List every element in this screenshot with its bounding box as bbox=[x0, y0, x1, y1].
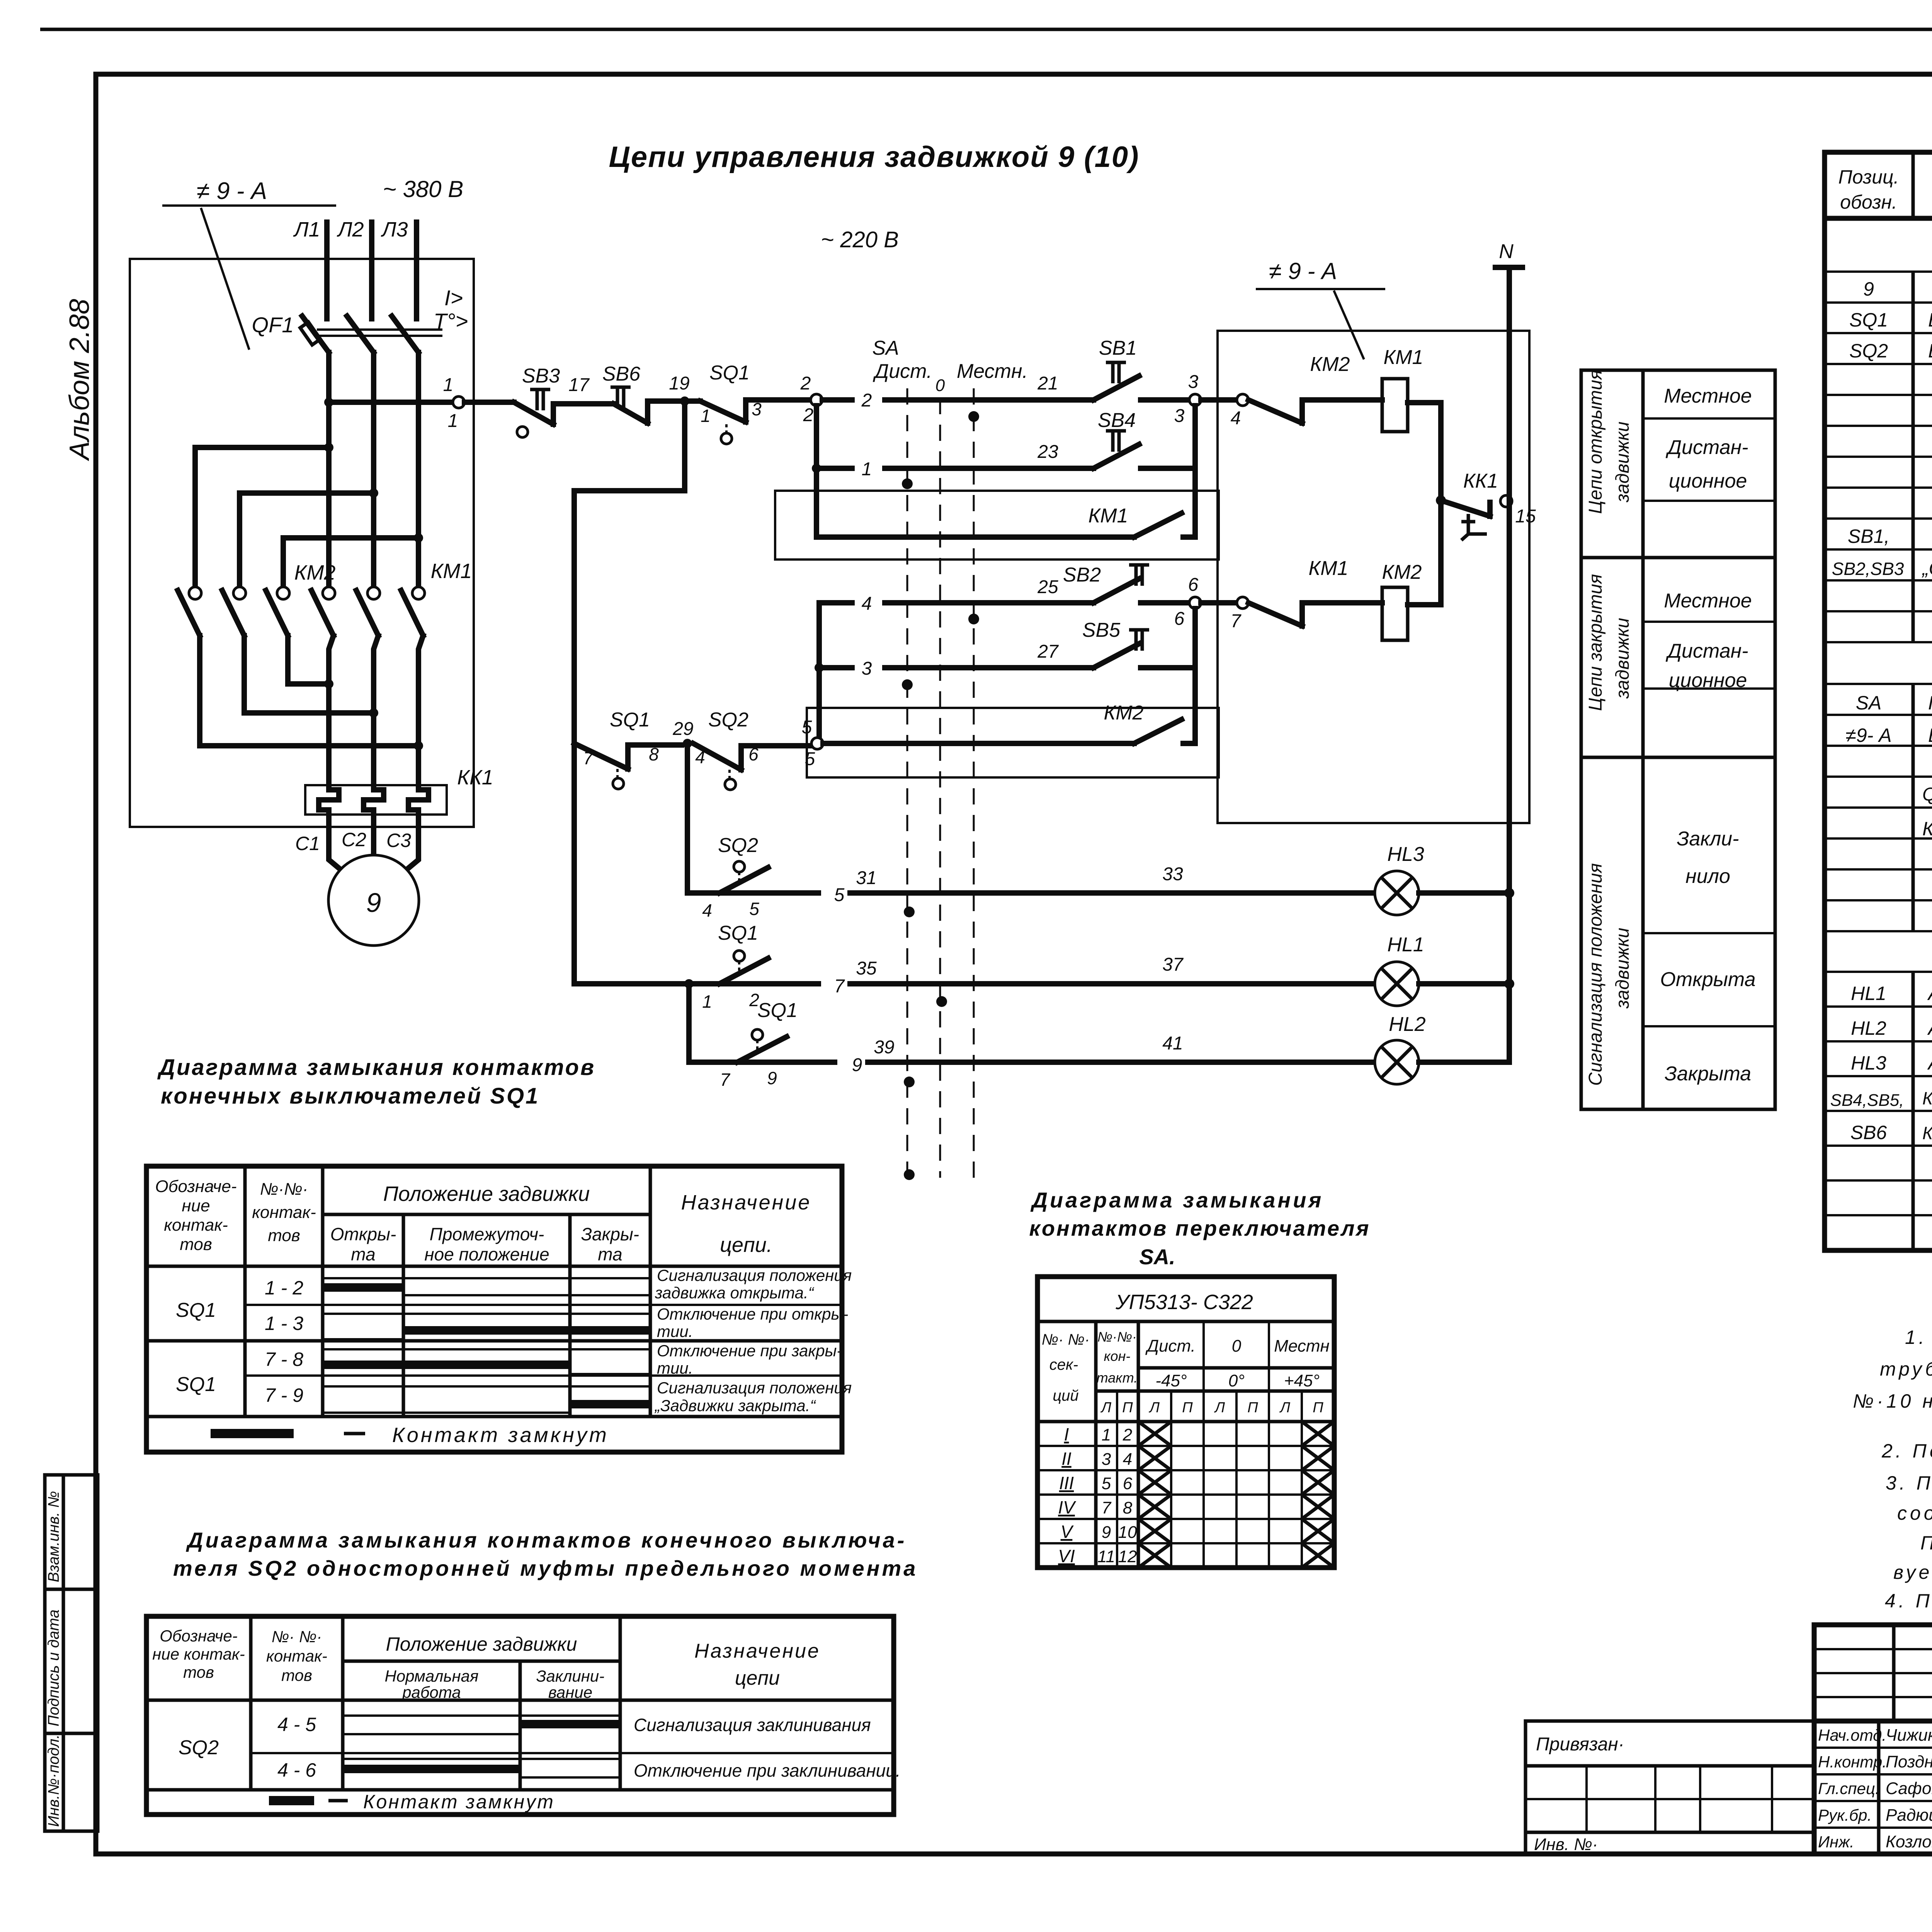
svg-text:VI: VI bbox=[1058, 1546, 1075, 1566]
attachment box bbox=[1526, 1721, 1814, 1854]
wire 31 row to lamp HL3 bbox=[775, 890, 1375, 896]
svg-text:HL2: HL2 bbox=[1389, 1013, 1425, 1036]
svg-text:37: 37 bbox=[1162, 954, 1184, 975]
wire KM2 pole b output crossover to phase 2 bbox=[244, 636, 374, 713]
svg-text:SB5: SB5 bbox=[1082, 619, 1121, 641]
svg-text:SA: SA bbox=[1856, 692, 1882, 714]
svg-text:35: 35 bbox=[856, 958, 877, 979]
side annotation table bbox=[1581, 370, 1775, 1109]
wire feeder to KM2 pole b bbox=[240, 493, 374, 588]
svg-text:HL1: HL1 bbox=[1387, 934, 1424, 956]
svg-text:КК1: КК1 bbox=[457, 766, 493, 789]
svg-text:9: 9 bbox=[1102, 1523, 1111, 1542]
svg-text:10: 10 bbox=[1118, 1523, 1137, 1542]
svg-text:N: N bbox=[1499, 240, 1514, 263]
svg-text:25: 25 bbox=[1037, 577, 1058, 597]
svg-text:Переключатель УП5313-С322: Переключатель УП5313-С322 bbox=[1928, 692, 1932, 714]
svg-text:I: I bbox=[1064, 1424, 1069, 1444]
svg-text:0: 0 bbox=[1232, 1337, 1242, 1355]
svg-text:Л: Л bbox=[1100, 1400, 1112, 1416]
svg-text:SB6: SB6 bbox=[1850, 1122, 1887, 1143]
svg-text:7: 7 bbox=[583, 748, 594, 768]
svg-text:9: 9 bbox=[852, 1055, 862, 1075]
svg-text:П: П bbox=[1313, 1400, 1323, 1416]
svg-text:та: та bbox=[351, 1244, 375, 1264]
wire 17 bbox=[553, 401, 614, 406]
svg-text:SQ2: SQ2 bbox=[179, 1736, 219, 1759]
wire KM2 pole c output crossover to phase 1 bbox=[288, 636, 329, 684]
svg-text:Дист.: Дист. bbox=[1145, 1337, 1196, 1355]
wire collector of rows 1,3 to node 3 bbox=[1192, 406, 1198, 468]
svg-text:5: 5 bbox=[749, 899, 759, 919]
svg-text:IV: IV bbox=[1058, 1497, 1077, 1517]
svg-text:SB2: SB2 bbox=[1063, 564, 1101, 586]
svg-text:SQ2: SQ2 bbox=[718, 834, 758, 857]
wire collector of rows 3b,5 to node 6 bbox=[1192, 609, 1198, 668]
svg-text:SA.: SA. bbox=[1139, 1245, 1175, 1269]
svg-text:Сигнализация положения: Сигнализация положения bbox=[657, 1266, 852, 1284]
svg-text:9: 9 bbox=[1863, 278, 1874, 300]
svg-text:4 - 6: 4 - 6 bbox=[277, 1759, 316, 1781]
svg-text:3: 3 bbox=[1188, 372, 1199, 392]
svg-text:№· №·: №· №· bbox=[1042, 1331, 1090, 1348]
svg-text:Положение задвижки: Положение задвижки bbox=[386, 1633, 577, 1655]
svg-text:тов: тов bbox=[268, 1226, 300, 1245]
svg-text:Диаграмма замыкания контактов: Диаграмма замыкания контактов bbox=[157, 1055, 595, 1080]
svg-text:SQ1: SQ1 bbox=[709, 362, 750, 384]
svg-text:QF1- Выключатель АЕ 2026-10НУЗ: QF1- Выключатель АЕ 2026-10НУЗ-В, Iₚ 12,… bbox=[1922, 784, 1932, 805]
svg-text:V: V bbox=[1061, 1522, 1074, 1542]
svg-text:ционное: ционное bbox=[1669, 470, 1747, 492]
svg-text:теля SQ2 односторонней: теля SQ2 односторонней муфты предельного… bbox=[173, 1556, 918, 1580]
svg-text:0°: 0° bbox=[1228, 1371, 1245, 1390]
svg-text:HL3: HL3 bbox=[1387, 843, 1424, 866]
svg-text:№·10 на трубопроводе из м: №·10 на трубопроводе из метантенков схем… bbox=[1853, 1390, 1932, 1412]
svg-text:Сафонова: Сафонова bbox=[1886, 1779, 1932, 1798]
title block bbox=[1526, 1625, 1932, 1921]
svg-text:21: 21 bbox=[1037, 373, 1058, 394]
svg-text:Л: Л bbox=[1148, 1400, 1160, 1416]
svg-text:Дист.: Дист. bbox=[873, 360, 932, 383]
svg-text:Цепи открытия: Цепи открытия bbox=[1585, 370, 1606, 514]
svg-text:8: 8 bbox=[1123, 1498, 1133, 1517]
svg-text:контак-: контак- bbox=[252, 1203, 316, 1222]
svg-text:задвижки: задвижки bbox=[1612, 422, 1633, 503]
svg-text:Радюшкин: Радюшкин bbox=[1886, 1806, 1932, 1825]
svg-text:4. Под чертой указаны номе: 4. Под чертой указаны номера клемм блока… bbox=[1885, 1590, 1932, 1612]
power block boundary box bbox=[130, 259, 474, 827]
svg-text:6: 6 bbox=[1174, 609, 1185, 629]
svg-text:39: 39 bbox=[874, 1037, 894, 1058]
svg-text:SB3: SB3 bbox=[522, 365, 560, 387]
svg-text:2. Перечень элементов сост: 2. Перечень элементов составлен для одно… bbox=[1881, 1440, 1932, 1462]
svg-text:Альбом 2.88: Альбом 2.88 bbox=[64, 299, 95, 461]
svg-text:+45°: +45° bbox=[1284, 1371, 1320, 1390]
svg-text:Обозначе-: Обозначе- bbox=[160, 1627, 237, 1645]
svg-text:С2: С2 bbox=[342, 829, 366, 850]
svg-text:Л2: Л2 bbox=[337, 218, 364, 241]
svg-text:такт.: такт. bbox=[1097, 1370, 1138, 1386]
svg-text:SQ1: SQ1 bbox=[610, 709, 650, 731]
svg-text:5: 5 bbox=[1102, 1474, 1111, 1493]
svg-text:обозн.: обозн. bbox=[1840, 191, 1897, 213]
svg-text:Закры-: Закры- bbox=[581, 1224, 639, 1244]
svg-text:тов: тов bbox=[183, 1663, 214, 1681]
svg-text:Н.контр.: Н.контр. bbox=[1818, 1753, 1887, 1771]
svg-text:КМ2: КМ2 bbox=[1310, 353, 1350, 376]
svg-text:II: II bbox=[1061, 1449, 1071, 1469]
SQ1 contact diagram table bbox=[146, 1055, 852, 1452]
svg-text:КК1: КК1 bbox=[1463, 470, 1498, 492]
svg-text:3. Положение конечных вык: 3. Положение конечных выключателей SQ1 bbox=[1886, 1472, 1932, 1494]
svg-text:Л: Л bbox=[1214, 1400, 1225, 1416]
wire left signal rail bbox=[574, 401, 685, 984]
svg-text:Нач.отд.: Нач.отд. bbox=[1818, 1726, 1886, 1744]
svg-text:С3: С3 bbox=[386, 830, 411, 851]
svg-text:Арматура АС12014 У2. И ~: Арматура АС12014 У2. И ~ 220В bbox=[1927, 1052, 1932, 1074]
svg-text:Козлов: Козлов bbox=[1886, 1832, 1932, 1851]
svg-text:Инв. №·: Инв. №· bbox=[1534, 1835, 1598, 1854]
svg-text:задвижки: задвижки bbox=[1612, 928, 1633, 1009]
svg-text:1. Данная схема приведена: 1. Данная схема приведена для задвижки №… bbox=[1905, 1327, 1932, 1348]
svg-text:2: 2 bbox=[861, 390, 872, 411]
svg-text:ционное: ционное bbox=[1669, 669, 1747, 692]
svg-text:работа: работа bbox=[401, 1683, 461, 1701]
svg-text:Положение конечного выключат: Положение конечного выключателя SQ2 соот… bbox=[1920, 1532, 1932, 1554]
svg-text:Арматура АС12013У2. И ~: Арматура АС12013У2. И ~ 220В bbox=[1927, 1017, 1932, 1039]
svg-text:Подпись и дата: Подпись и дата bbox=[45, 1609, 62, 1726]
junction to KK1 contact bbox=[1436, 495, 1446, 505]
parts list table bbox=[1825, 106, 1932, 1250]
svg-text:Кнопка КЕ- 011У3, исп.2, тол: Кнопка КЕ- 011У3, исп.2, толкатель черны… bbox=[1922, 1088, 1932, 1108]
svg-text:23: 23 bbox=[1037, 442, 1058, 462]
svg-text:Положение задвижки: Положение задвижки bbox=[383, 1182, 590, 1206]
svg-text:КМ1: КМ1 bbox=[1309, 557, 1349, 580]
svg-text:4 - 5: 4 - 5 bbox=[277, 1714, 316, 1735]
svg-text:I>: I> bbox=[444, 286, 463, 310]
svg-text:SB4: SB4 bbox=[1098, 409, 1136, 432]
svg-text:тов: тов bbox=[180, 1235, 212, 1254]
svg-text:HL1: HL1 bbox=[1851, 983, 1886, 1004]
svg-text:0: 0 bbox=[935, 376, 945, 395]
svg-text:Дистан-: Дистан- bbox=[1665, 436, 1748, 459]
svg-text:9: 9 bbox=[366, 888, 381, 918]
svg-text:тов: тов bbox=[281, 1666, 312, 1684]
svg-text:III: III bbox=[1059, 1473, 1074, 1493]
svg-text:HL2: HL2 bbox=[1851, 1017, 1886, 1039]
svg-text:Закли-: Закли- bbox=[1677, 828, 1739, 850]
svg-text:4: 4 bbox=[695, 747, 705, 767]
wire down to HL2 branch bbox=[686, 984, 692, 1062]
svg-text:Открыта: Открыта bbox=[1660, 968, 1755, 991]
svg-text:конечных выключателей SQ1: конечных выключателей SQ1 bbox=[161, 1083, 539, 1109]
svg-text:SB4,SB5,: SB4,SB5, bbox=[1830, 1091, 1904, 1110]
svg-text:Сигнализация заклинивания: Сигнализация заклинивания bbox=[634, 1715, 871, 1735]
svg-text:SB1: SB1 bbox=[1099, 337, 1137, 359]
svg-text:Цепи закрытия: Цепи закрытия bbox=[1585, 574, 1606, 711]
svg-text:Закрыта: Закрыта bbox=[1665, 1063, 1751, 1085]
svg-text:Местное: Местное bbox=[1664, 385, 1752, 407]
svg-text:Взам.инв. №: Взам.инв. № bbox=[45, 1491, 62, 1582]
svg-text:4: 4 bbox=[862, 594, 872, 614]
wire feeder to KM2 pole a bbox=[195, 447, 329, 588]
junction node 29 bbox=[683, 739, 692, 748]
svg-text:Диаграмма замыкания: Диаграмма замыкания bbox=[1031, 1188, 1324, 1212]
node 5 bbox=[811, 738, 823, 749]
svg-text:нило: нило bbox=[1685, 865, 1730, 888]
svg-text:ное положение: ное положение bbox=[424, 1244, 549, 1264]
svg-text:КМ2: КМ2 bbox=[294, 561, 336, 584]
wires to motor bbox=[329, 815, 418, 877]
svg-text:Отключение при заклинивании: Отключение при заклинивании. bbox=[634, 1760, 901, 1781]
svg-text:15: 15 bbox=[1515, 506, 1536, 527]
svg-text:3: 3 bbox=[1102, 1450, 1111, 1469]
svg-text:SQ1: SQ1 bbox=[757, 999, 798, 1022]
svg-text:~ 380 В: ~ 380 В bbox=[383, 176, 464, 202]
svg-text:1: 1 bbox=[443, 375, 454, 395]
svg-text:тии.: тии. bbox=[657, 1322, 693, 1340]
svg-text:вует нормальной работе задви: вует нормальной работе задвижки bbox=[1893, 1561, 1932, 1583]
svg-text:Цепи управления задвижкой 9: Цепи управления задвижкой 9 (10) bbox=[609, 141, 1139, 173]
svg-text:6: 6 bbox=[748, 744, 759, 764]
svg-text:7: 7 bbox=[720, 1070, 730, 1090]
svg-text:Инж.: Инж. bbox=[1818, 1833, 1854, 1851]
svg-text:„Открыто“, „Закрыть“, „ Стоп: „Открыто“, „Закрыть“, „ Стоп” bbox=[1922, 558, 1932, 579]
svg-text:2: 2 bbox=[1122, 1425, 1132, 1444]
notes bbox=[1853, 1327, 1932, 1612]
svg-text:задвижки: задвижки bbox=[1612, 618, 1633, 699]
motor 9 bbox=[328, 855, 419, 946]
svg-text:цепи: цепи bbox=[735, 1667, 780, 1689]
svg-text:31: 31 bbox=[856, 868, 876, 888]
svg-text:6: 6 bbox=[1188, 575, 1199, 595]
svg-text:1 - 3: 1 - 3 bbox=[265, 1313, 303, 1334]
svg-text:Контакт замкнут: Контакт замкнут bbox=[392, 1423, 609, 1447]
wire 35 row to lamp HL1 bbox=[775, 981, 1375, 986]
svg-text:Сигнализация положения: Сигнализация положения bbox=[1585, 863, 1606, 1086]
svg-text:КМ1: КМ1 bbox=[1088, 505, 1128, 527]
svg-text:сек-: сек- bbox=[1049, 1356, 1078, 1373]
svg-text:№·№·: №·№· bbox=[1097, 1329, 1137, 1345]
svg-text:№·№·: №·№· bbox=[260, 1180, 308, 1199]
junction node 19 bbox=[680, 396, 689, 406]
svg-text:Рук.бр.: Рук.бр. bbox=[1818, 1806, 1872, 1824]
svg-text:2: 2 bbox=[800, 373, 811, 394]
svg-text:Местн: Местн bbox=[1274, 1337, 1330, 1355]
svg-text:8: 8 bbox=[649, 744, 659, 764]
svg-text:SQ1: SQ1 bbox=[176, 1299, 216, 1321]
svg-text:17: 17 bbox=[568, 375, 590, 395]
SA switch contact diagram table bbox=[1029, 1188, 1370, 1568]
svg-text:Назначение: Назначение bbox=[694, 1640, 820, 1662]
svg-text:Позиц.: Позиц. bbox=[1838, 166, 1899, 188]
wire phase L3 below QF1 bbox=[416, 352, 421, 588]
wire phase L3 top bbox=[414, 222, 419, 319]
svg-text:7 - 9: 7 - 9 bbox=[265, 1384, 303, 1406]
SA contact dashed lines bbox=[906, 388, 908, 1178]
svg-text:Промежуточ-: Промежуточ- bbox=[430, 1224, 544, 1244]
svg-text:6: 6 bbox=[1123, 1474, 1133, 1493]
svg-text:цепи.: цепи. bbox=[720, 1233, 772, 1257]
svg-text:КМ2: КМ2 bbox=[1382, 561, 1422, 583]
svg-text:Сигнализация положения: Сигнализация положения bbox=[657, 1379, 852, 1397]
svg-text:П: П bbox=[1247, 1400, 1258, 1416]
node 1 bbox=[453, 396, 464, 408]
svg-text:5: 5 bbox=[802, 717, 812, 738]
svg-text:та: та bbox=[598, 1244, 622, 1264]
svg-text:SB1,: SB1, bbox=[1848, 526, 1889, 547]
svg-text:Позднякова: Позднякова bbox=[1886, 1752, 1932, 1771]
svg-text:П: П bbox=[1182, 1400, 1193, 1416]
svg-text:4: 4 bbox=[1123, 1450, 1132, 1469]
wire phase L1 top bbox=[324, 222, 330, 319]
svg-text:контак-: контак- bbox=[266, 1647, 327, 1665]
svg-text:Л: Л bbox=[1279, 1400, 1291, 1416]
svg-text:Выключатель муфты предельног: Выключатель муфты предельного bbox=[1928, 340, 1932, 362]
svg-text:QF1: QF1 bbox=[252, 313, 294, 337]
svg-text:~ 220 В: ~ 220 В bbox=[821, 227, 899, 252]
svg-text:Арматура АС12011У2. И~: Арматура АС12011У2. И~220В bbox=[1927, 983, 1932, 1004]
enclosure box around KM2 holding contact bbox=[807, 708, 1219, 777]
control block 9-A boundary bbox=[1218, 331, 1529, 823]
svg-text:ций: ций bbox=[1053, 1387, 1078, 1404]
svg-text:1 - 2: 1 - 2 bbox=[265, 1277, 303, 1299]
svg-text:Инв.№·подл.: Инв.№·подл. bbox=[45, 1735, 62, 1827]
wire feeder to KM2 pole c bbox=[283, 538, 418, 588]
wire from node 29 down to HL3 branch bbox=[685, 743, 690, 893]
wire 39 row to lamp HL2 bbox=[793, 1060, 1375, 1065]
wire phase L2 top bbox=[369, 222, 374, 319]
svg-text:Заклини-: Заклини- bbox=[536, 1667, 604, 1685]
svg-text:4: 4 bbox=[702, 900, 712, 920]
svg-text:вание: вание bbox=[548, 1683, 592, 1701]
svg-text:7 - 8: 7 - 8 bbox=[265, 1349, 303, 1370]
svg-text:П: П bbox=[1122, 1400, 1133, 1416]
svg-text:Л1: Л1 bbox=[293, 218, 320, 241]
svg-text:SB6: SB6 bbox=[602, 363, 640, 385]
wire row 1 tap bbox=[814, 406, 819, 537]
svg-text:КМ1: КМ1 bbox=[1384, 346, 1423, 369]
svg-text:2: 2 bbox=[803, 405, 814, 425]
node 2 bbox=[746, 397, 811, 403]
svg-text:7: 7 bbox=[1231, 611, 1242, 631]
svg-text:КМ2: КМ2 bbox=[1104, 702, 1144, 724]
svg-text:SQ2: SQ2 bbox=[1849, 340, 1888, 362]
svg-text:УП5313- С322: УП5313- С322 bbox=[1115, 1291, 1253, 1314]
svg-text:№· №·: №· №· bbox=[272, 1628, 322, 1646]
svg-text:трубопроводе в котельную: трубопроводе в котельную и газгольдеры, … bbox=[1880, 1358, 1932, 1380]
svg-text:соответствует промежуточному: соответствует промежуточному положению з… bbox=[1897, 1502, 1932, 1524]
svg-text:контак-: контак- bbox=[164, 1216, 228, 1235]
svg-text:Контакт замкнут: Контакт замкнут bbox=[363, 1791, 555, 1813]
svg-text:SQ1: SQ1 bbox=[718, 922, 758, 944]
svg-text:19: 19 bbox=[669, 373, 689, 394]
svg-text:1: 1 bbox=[702, 992, 712, 1012]
svg-text:„Задвижки закрыта.“: „Задвижки закрыта.“ bbox=[654, 1396, 816, 1415]
svg-text:SB2,SB3: SB2,SB3 bbox=[1832, 559, 1904, 579]
svg-text:5: 5 bbox=[834, 885, 845, 905]
svg-text:T°>: T°> bbox=[434, 309, 468, 333]
svg-text:9: 9 bbox=[767, 1068, 777, 1088]
svg-text:≠ 9 - А: ≠ 9 - А bbox=[1269, 258, 1337, 284]
svg-text:Блок управления Б5430-3074 УХ: Блок управления Б5430-3074 УХЛ4 bbox=[1928, 724, 1932, 746]
svg-text:7: 7 bbox=[1102, 1498, 1112, 1517]
svg-text:Гл.спец.: Гл.спец. bbox=[1818, 1779, 1880, 1798]
wire phase L1 below QF1 bbox=[326, 352, 332, 588]
SA closed-contact dots bbox=[968, 411, 979, 422]
svg-text:КМ1: КМ1 bbox=[431, 560, 472, 583]
svg-text:33: 33 bbox=[1162, 864, 1183, 884]
svg-text:ние: ние bbox=[182, 1196, 210, 1215]
svg-text:Кнопка КЕ- 011У3, исп. 2. то: Кнопка КЕ- 011У3, исп. 2. толкатель крас… bbox=[1922, 1123, 1932, 1143]
wire phase L2 below QF1 bbox=[371, 352, 376, 588]
svg-text:1: 1 bbox=[1102, 1425, 1111, 1444]
svg-text:контактов переключателя: контактов переключателя bbox=[1029, 1216, 1370, 1240]
svg-text:11: 11 bbox=[1097, 1547, 1115, 1566]
svg-text:С1: С1 bbox=[295, 833, 320, 854]
svg-text:SQ1: SQ1 bbox=[176, 1373, 216, 1396]
svg-text:Чижиков: Чижиков bbox=[1886, 1726, 1932, 1745]
svg-text:-45°: -45° bbox=[1155, 1371, 1187, 1390]
svg-text:SQ2: SQ2 bbox=[708, 709, 748, 731]
wire row 2 with number 2 bbox=[822, 397, 1039, 403]
svg-text:SQ1: SQ1 bbox=[1849, 309, 1888, 331]
left margin boxes (Взам.инв.№ / Подпись и дата / Инв.№ подл.) bbox=[45, 1475, 98, 1831]
svg-text:Дистан-: Дистан- bbox=[1665, 640, 1748, 662]
node 3 / node 4 terminals bbox=[1189, 394, 1201, 406]
wire KM2 pole a output crossover to phase 3 bbox=[200, 636, 418, 746]
wire KM1 outputs down bbox=[329, 636, 423, 785]
svg-text:≠9- А: ≠9- А bbox=[1845, 724, 1891, 746]
leader to block bbox=[201, 208, 249, 350]
top rule line bbox=[40, 28, 1932, 31]
svg-text:12: 12 bbox=[1118, 1547, 1137, 1566]
enclosure box around KM1 holding contact bbox=[775, 491, 1219, 560]
svg-text:Назначение: Назначение bbox=[681, 1191, 811, 1214]
svg-text:4: 4 bbox=[1231, 408, 1241, 429]
svg-text:тии.: тии. bbox=[657, 1359, 693, 1377]
svg-text:5: 5 bbox=[805, 749, 815, 769]
svg-text:Откры-: Откры- bbox=[330, 1224, 396, 1244]
svg-text:7: 7 bbox=[834, 976, 845, 997]
svg-text:Л3: Л3 bbox=[381, 218, 408, 241]
svg-text:1: 1 bbox=[448, 411, 458, 431]
svg-text:Обозначе-: Обозначе- bbox=[155, 1177, 236, 1196]
svg-text:Нормальная: Нормальная bbox=[385, 1667, 479, 1685]
junction feeder taps bbox=[324, 443, 333, 452]
junction to HL2 branch bbox=[684, 979, 694, 988]
wire row 4 (closing) bbox=[819, 600, 1039, 605]
svg-text:1: 1 bbox=[701, 406, 711, 426]
wire control tap from phase L1 bbox=[324, 398, 333, 407]
svg-text:3: 3 bbox=[862, 658, 872, 679]
svg-text:кон-: кон- bbox=[1104, 1348, 1131, 1364]
svg-text:задвижка открыта.“: задвижка открыта.“ bbox=[655, 1284, 815, 1302]
svg-text:27: 27 bbox=[1037, 641, 1059, 662]
node 6 / node 7 terminals bbox=[1189, 597, 1201, 609]
svg-text:Выключатель конечный: Выключатель конечный bbox=[1928, 309, 1932, 331]
svg-text:Отключение при откры-: Отключение при откры- bbox=[657, 1305, 848, 1323]
svg-text:Местное: Местное bbox=[1664, 590, 1752, 612]
svg-text:29: 29 bbox=[672, 719, 693, 739]
svg-text:Привязан·: Привязан· bbox=[1536, 1734, 1624, 1755]
svg-text:≠ 9 - А: ≠ 9 - А bbox=[197, 178, 267, 204]
svg-text:Местн.: Местн. bbox=[957, 360, 1028, 383]
wire row 3b (SB5 row) bbox=[819, 603, 1039, 739]
svg-text:1: 1 bbox=[862, 459, 872, 480]
svg-text:КК1- Реле РТЛ-10140×4С, I: КК1- Реле РТЛ-10140×4С, I н.э. 10А bbox=[1922, 818, 1932, 840]
wire 19 bbox=[648, 398, 700, 404]
